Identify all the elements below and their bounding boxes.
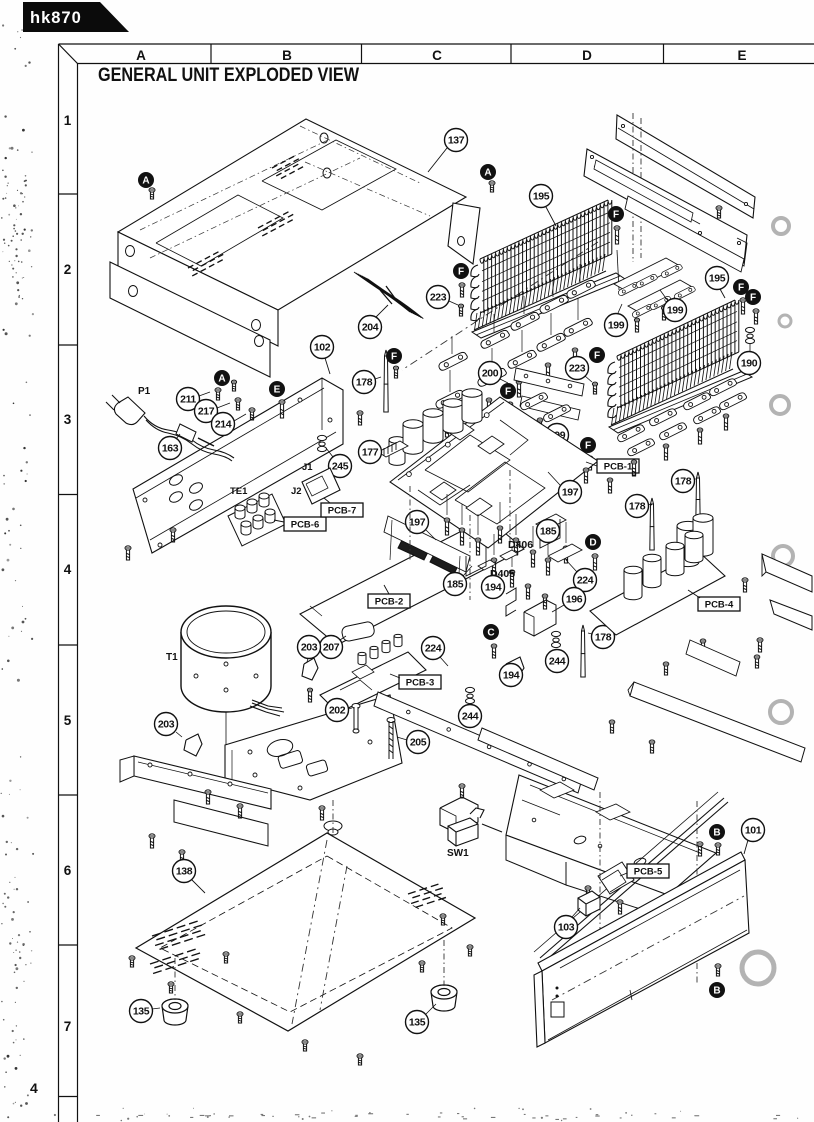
front panel 101 xyxy=(538,852,745,971)
boxed PCB-2 xyxy=(368,594,410,608)
circle 223 right + screw xyxy=(566,357,589,380)
bracket under chassis xyxy=(440,797,478,833)
circle 178 b xyxy=(672,470,695,493)
circle 199 a xyxy=(664,299,687,322)
circle 224 right xyxy=(574,569,597,592)
badge B top + screw xyxy=(709,824,725,840)
pads under right heatsink xyxy=(618,425,645,442)
PCB-5 small board xyxy=(598,862,634,894)
svg-text:PCB-3: PCB-3 xyxy=(406,678,435,689)
vertical dash axes xyxy=(632,113,634,262)
PCB-4 board xyxy=(590,552,725,635)
svg-text:C: C xyxy=(487,628,494,639)
clamp 203 lower xyxy=(184,734,202,756)
svg-text:J2: J2 xyxy=(291,486,302,497)
deck details xyxy=(540,782,574,798)
plate 224 xyxy=(548,544,582,562)
PCB-2 board xyxy=(300,518,524,645)
svg-text:F: F xyxy=(594,351,600,362)
circle 185 right xyxy=(537,520,560,543)
svg-text:102: 102 xyxy=(314,341,331,353)
scan speckles left margin xyxy=(21,29,23,31)
power plug P1 xyxy=(106,395,234,461)
circle 178 tl xyxy=(353,371,376,394)
left bracket rail xyxy=(134,756,271,809)
svg-text:177: 177 xyxy=(362,446,379,458)
foot 135 right xyxy=(431,985,457,1011)
switch SW1 xyxy=(448,808,484,846)
svg-text:196: 196 xyxy=(566,593,583,605)
vent slots bottom right xyxy=(408,883,446,908)
spring bolt 205 xyxy=(387,718,395,760)
capacitors PCB-4 xyxy=(677,521,699,566)
svg-text:D: D xyxy=(582,48,592,63)
svg-text:A: A xyxy=(142,176,149,187)
diode D406 xyxy=(500,550,518,560)
svg-text:TE1: TE1 xyxy=(230,486,248,497)
transformer T1 xyxy=(181,606,271,712)
PCB-7 small board xyxy=(302,468,340,504)
plate screws xyxy=(129,956,135,967)
svg-text:4: 4 xyxy=(30,1080,38,1096)
diode D405 xyxy=(478,560,496,570)
svg-text:B: B xyxy=(282,48,292,63)
circle 244 right xyxy=(546,650,569,673)
rod 178 a xyxy=(650,498,654,550)
svg-text:138: 138 xyxy=(176,865,193,877)
hk870 model tab xyxy=(23,2,129,32)
dashed axes front area xyxy=(599,792,601,948)
svg-text:D406: D406 xyxy=(508,539,533,551)
circle 163 xyxy=(159,437,182,460)
clamp 194 lower xyxy=(504,657,524,680)
badge F tl + screw xyxy=(386,348,402,364)
clamp 203 top xyxy=(302,658,318,680)
svg-text:F: F xyxy=(458,267,464,278)
bracket 200 xyxy=(514,368,584,396)
svg-text:135: 135 xyxy=(133,1005,150,1017)
svg-text:194: 194 xyxy=(503,669,520,681)
svg-text:203: 203 xyxy=(301,641,318,653)
svg-text:203: 203 xyxy=(158,718,175,730)
circle 185 left xyxy=(444,573,467,596)
svg-text:D: D xyxy=(589,538,596,549)
svg-text:223: 223 xyxy=(569,362,586,374)
bolt 202 xyxy=(352,704,360,734)
svg-text:197: 197 xyxy=(409,516,426,528)
svg-text:185: 185 xyxy=(447,578,464,590)
circle 196 xyxy=(563,588,586,611)
circle 190 xyxy=(738,352,761,375)
svg-text:3: 3 xyxy=(64,412,72,427)
circle 211 xyxy=(177,388,200,411)
badge F 223 xyxy=(589,347,605,363)
svg-text:207: 207 xyxy=(323,641,340,653)
foot 135 left xyxy=(162,999,188,1025)
svg-text:SW1: SW1 xyxy=(447,848,469,859)
badge F mid xyxy=(580,437,596,453)
vent slots bottom left xyxy=(152,920,205,950)
regulator heatsink 177 xyxy=(378,441,408,458)
circle 178 c xyxy=(592,626,615,649)
svg-text:E: E xyxy=(274,385,281,396)
circle 178 a xyxy=(626,495,649,518)
svg-text:178: 178 xyxy=(629,500,646,512)
bracket 185 right xyxy=(536,514,566,530)
svg-text:224: 224 xyxy=(577,574,594,586)
circle 195 right xyxy=(706,267,729,290)
right bracket panel xyxy=(762,554,812,592)
chassis mounting plate xyxy=(225,695,402,800)
connector bars dark xyxy=(398,540,428,560)
svg-text:135: 135 xyxy=(409,1016,426,1028)
circle 203 lower xyxy=(155,713,178,736)
PCB-1 main board xyxy=(390,397,598,574)
svg-text:178: 178 xyxy=(356,376,373,388)
circle 224 left xyxy=(422,637,445,660)
screws on 102 xyxy=(170,528,176,542)
rear panel xyxy=(584,149,747,263)
circle 199 mid xyxy=(546,424,569,447)
lower deck bracket under PCB-1 xyxy=(384,516,470,572)
boxed PCB-7 xyxy=(321,503,363,517)
plate cutouts xyxy=(265,737,294,759)
svg-text:205: 205 xyxy=(410,736,427,748)
svg-text:PCB-4: PCB-4 xyxy=(705,600,734,611)
circle 217 xyxy=(195,400,218,423)
top cover 137 xyxy=(110,119,480,377)
small cylinders on PCB-3 xyxy=(358,652,366,664)
svg-text:190: 190 xyxy=(741,357,758,369)
svg-text:F: F xyxy=(738,283,744,294)
svg-text:200: 200 xyxy=(482,367,499,379)
heatsink 195 right xyxy=(608,300,752,433)
svg-text:PCB-2: PCB-2 xyxy=(375,597,404,608)
cap 207 xyxy=(341,621,375,642)
svg-text:2: 2 xyxy=(64,262,72,277)
svg-text:214: 214 xyxy=(215,418,232,430)
svg-text:137: 137 xyxy=(448,134,465,146)
circle 177 xyxy=(359,441,382,464)
pads under center heatsink xyxy=(439,352,468,370)
boxed PCB-1 xyxy=(597,459,639,473)
circle 199 b xyxy=(605,314,628,337)
badge B bottom + screw xyxy=(715,964,721,976)
svg-text:202: 202 xyxy=(329,704,346,716)
circle 135 right xyxy=(406,1011,429,1034)
circle 200 xyxy=(479,362,502,385)
heatsink bracket bar right xyxy=(625,196,744,272)
rod 178 c xyxy=(581,625,585,677)
rod 178 b xyxy=(696,472,700,522)
svg-text:199: 199 xyxy=(667,304,684,316)
svg-text:7: 7 xyxy=(64,1019,72,1034)
svg-text:PCB-7: PCB-7 xyxy=(328,506,357,517)
svg-text:211: 211 xyxy=(180,393,196,405)
svg-text:103: 103 xyxy=(558,921,575,933)
boxed PCB-5 xyxy=(627,864,669,878)
svg-text:185: 185 xyxy=(540,525,557,537)
circle 204 xyxy=(359,316,382,339)
badge F + screw xyxy=(608,206,624,222)
svg-text:204: 204 xyxy=(362,321,379,333)
screws right chassis xyxy=(585,886,591,900)
washers 244 right xyxy=(552,631,561,647)
vertical axes from board xyxy=(409,486,411,560)
svg-text:244: 244 xyxy=(549,655,566,667)
bracket 185 left xyxy=(466,547,486,576)
circle 244 left xyxy=(459,705,482,728)
svg-text:hk870: hk870 xyxy=(30,9,82,27)
louvre ovals on 102 xyxy=(168,473,185,488)
badge F pcb1 xyxy=(500,383,516,399)
screw items 211/217/214 xyxy=(215,388,221,400)
svg-text:C: C xyxy=(432,48,442,63)
right-edge scan blobs xyxy=(773,218,789,234)
screw A right xyxy=(480,164,496,180)
circle 205 xyxy=(407,731,430,754)
boxed PCB-4 xyxy=(698,597,740,611)
circle 223 + screw xyxy=(427,286,450,309)
circle 245 xyxy=(329,455,352,478)
panel face details xyxy=(560,870,740,968)
bracket 102 rear panel xyxy=(133,378,343,553)
svg-text:B: B xyxy=(713,986,720,997)
boxed PCB-3 xyxy=(399,675,441,689)
badge D + screw xyxy=(585,534,601,550)
circle 214 xyxy=(212,413,235,436)
pads 199 mid xyxy=(521,393,548,410)
svg-text:199: 199 xyxy=(608,319,625,331)
svg-text:217: 217 xyxy=(198,405,215,417)
svg-text:195: 195 xyxy=(709,272,726,284)
rear top strip xyxy=(616,115,755,218)
circle 101 xyxy=(742,819,765,842)
svg-text:PCB-1: PCB-1 xyxy=(604,462,633,473)
svg-text:224: 224 xyxy=(425,642,442,654)
svg-text:194: 194 xyxy=(485,581,502,593)
circle 103 xyxy=(555,916,578,939)
svg-text:163: 163 xyxy=(162,442,179,454)
bracket 196 xyxy=(524,600,556,636)
diagonal fold lines xyxy=(292,840,327,1024)
circle 194 left xyxy=(482,576,505,599)
svg-text:J1: J1 xyxy=(302,462,313,473)
svg-text:5: 5 xyxy=(64,713,72,728)
svg-text:A: A xyxy=(136,48,146,63)
svg-text:F: F xyxy=(391,352,397,363)
lower-left bracket xyxy=(174,800,268,846)
svg-text:178: 178 xyxy=(595,631,612,643)
svg-text:244: 244 xyxy=(462,710,479,722)
circle 197 east xyxy=(559,481,582,504)
svg-text:197: 197 xyxy=(562,486,579,498)
svg-text:E: E xyxy=(737,48,746,63)
circle 102 xyxy=(311,336,334,359)
svg-text:178: 178 xyxy=(675,475,692,487)
badge E + screw xyxy=(269,381,285,397)
inner dashed inset xyxy=(160,856,452,1012)
dress strip PCB5 area xyxy=(540,798,724,958)
right chassis deck xyxy=(506,775,716,895)
svg-text:B: B xyxy=(713,828,720,839)
screws right zone xyxy=(700,639,706,652)
boxed PCB-6 xyxy=(284,517,326,531)
svg-text:A: A xyxy=(484,168,491,179)
svg-text:T1: T1 xyxy=(166,652,178,663)
circle 194 lower xyxy=(500,664,523,687)
svg-text:F: F xyxy=(750,293,756,304)
clamp 194 xyxy=(506,588,516,616)
hardware screws field center xyxy=(444,518,450,535)
nut 190 xyxy=(746,327,755,343)
svg-text:245: 245 xyxy=(332,460,349,472)
svg-text:1: 1 xyxy=(64,113,72,128)
knob 103 xyxy=(578,891,600,916)
circle 197 west xyxy=(406,511,429,534)
circle 137 xyxy=(445,129,468,152)
right small bracket xyxy=(686,640,740,676)
svg-text:4: 4 xyxy=(64,562,72,577)
badges F F right xyxy=(733,279,749,295)
terminal strip TE1 xyxy=(228,493,286,546)
circle 202 xyxy=(326,699,349,722)
screw A left xyxy=(138,172,154,188)
svg-text:A: A xyxy=(218,374,225,385)
circle 207 xyxy=(320,636,343,659)
rear panel screw xyxy=(716,206,722,218)
svg-text:195: 195 xyxy=(533,190,550,202)
rod 178 top-left xyxy=(384,350,388,412)
nut 245 xyxy=(318,435,327,451)
badge C + screw xyxy=(483,624,499,640)
T1 wires xyxy=(252,700,282,708)
capacitors on PCB-1 xyxy=(389,437,405,466)
svg-text:F: F xyxy=(613,210,619,221)
heatsink 195 center xyxy=(471,200,625,338)
bottom plate 138 xyxy=(136,833,475,1031)
rail C xyxy=(478,728,598,790)
circle 203 top xyxy=(298,636,321,659)
long rail B below PCB-4 xyxy=(630,682,805,762)
washers 244 left xyxy=(466,687,475,703)
cable bundle 204 xyxy=(354,272,423,319)
circle 195 center xyxy=(530,185,553,208)
svg-text:223: 223 xyxy=(430,291,447,303)
PCB-3 board xyxy=(320,652,426,713)
circle 135 left xyxy=(130,1000,153,1023)
washer foot under plate xyxy=(324,821,342,835)
long rail A xyxy=(374,692,582,793)
svg-text:P1: P1 xyxy=(138,386,151,397)
svg-text:F: F xyxy=(505,387,511,398)
svg-text:101: 101 xyxy=(745,824,762,836)
svg-text:GENERAL UNIT EXPLODED VIEW: GENERAL UNIT EXPLODED VIEW xyxy=(98,65,359,86)
pads 199 upper right xyxy=(614,258,680,292)
strain relief 163 xyxy=(176,424,196,442)
circle 138 xyxy=(173,860,196,883)
svg-text:F: F xyxy=(585,441,591,452)
svg-text:6: 6 xyxy=(64,863,72,878)
svg-text:PCB-5: PCB-5 xyxy=(634,867,663,878)
badge A mid xyxy=(214,370,230,386)
badge F left + screw xyxy=(453,263,469,279)
svg-text:PCB-6: PCB-6 xyxy=(291,520,320,531)
